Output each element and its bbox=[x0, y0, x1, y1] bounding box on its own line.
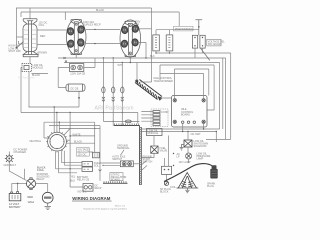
transformer end lug lower bbox=[159, 97, 162, 100]
fan line top bbox=[156, 53, 231, 139]
wire drop to oval1 top bbox=[64, 12, 66, 20]
svg-text:BLK: BLK bbox=[150, 55, 155, 58]
wire capsule top stub bbox=[29, 8, 31, 19]
wire charger down and diagonal to module bbox=[9, 162, 26, 181]
wire capsule right lead upper to oval1 bbox=[37, 29, 67, 31]
oval2 outlet BL bbox=[120, 40, 128, 48]
wire into circle top 2 bbox=[56, 113, 58, 133]
wire circle bottom stub 1 bbox=[55, 151, 57, 169]
svg-text:LP: LP bbox=[177, 156, 180, 159]
receptacle oval 1 bbox=[66, 19, 86, 55]
svg-text:PLUG: PLUG bbox=[207, 185, 214, 188]
comb horizontal row bbox=[114, 125, 140, 127]
wire board top-left up bbox=[173, 69, 175, 99]
starter solenoid module bbox=[26, 179, 35, 188]
svg-text:BROWN: BROWN bbox=[38, 51, 48, 54]
wire bottom-right run 2 bbox=[141, 131, 216, 133]
svg-text:COIL: COIL bbox=[170, 186, 176, 189]
wire nested L5 y128.5 bbox=[59, 128, 100, 130]
svg-text:YEL: YEL bbox=[71, 176, 76, 179]
bottom middle connector box 1 bbox=[82, 162, 93, 167]
idle control board bbox=[172, 96, 208, 128]
svg-text:SOLENOID: SOLENOID bbox=[194, 145, 207, 148]
wire capsule outlet with arrow bbox=[78, 91, 80, 107]
oval1 top flange bbox=[71, 20, 81, 24]
oval2 bottom flange bbox=[125, 54, 136, 56]
HT lead curve bbox=[164, 164, 213, 182]
wire relay bottom stubs bbox=[195, 48, 203, 58]
svg-text:BLOCK: BLOCK bbox=[160, 190, 169, 193]
leader to outlet box bbox=[121, 150, 125, 155]
oval2 outlet TR bbox=[131, 25, 139, 33]
twistlock outlet box bbox=[120, 161, 133, 167]
svg-text:TRANSFORMER: TRANSFORMER bbox=[154, 80, 174, 83]
boxes upper small right-mid A bbox=[147, 129, 163, 136]
oval1 outlet BR bbox=[77, 38, 85, 47]
svg-text:MODULE: MODULE bbox=[33, 67, 44, 70]
wire box A to B bbox=[153, 136, 155, 147]
svg-text:BLACK: BLACK bbox=[74, 140, 83, 143]
wire x150 drop joins transformer bbox=[140, 81, 152, 83]
svg-text:12GA: 12GA bbox=[28, 200, 35, 204]
idle control transformer diagonal bbox=[135, 80, 162, 101]
wire module left horizontal bbox=[12, 182, 27, 184]
coil ground bbox=[185, 188, 189, 193]
svg-text:DUPLEX RECP: DUPLEX RECP bbox=[83, 24, 101, 27]
svg-text:BOARD: BOARD bbox=[111, 178, 120, 181]
static regulator board box bbox=[110, 173, 123, 181]
oval2 outlet TL bbox=[121, 26, 129, 34]
svg-text:VALVE: VALVE bbox=[160, 149, 168, 152]
wire charger top stub bbox=[8, 152, 10, 156]
wires into bottom boxes bbox=[56, 169, 84, 187]
wire board top-right up bbox=[160, 74, 204, 99]
svg-text:RELAY CB: RELAY CB bbox=[77, 179, 89, 182]
wire run 1 to solenoid zone bbox=[206, 138, 231, 140]
svg-text:12V DC: 12V DC bbox=[78, 153, 87, 156]
wire top relay bus bbox=[156, 29, 199, 31]
wire left col module down bbox=[28, 72, 30, 108]
wire CB2 bottom bbox=[169, 51, 171, 53]
oval1 bottom flange bbox=[71, 52, 81, 54]
oval2 outlet BR bbox=[131, 38, 139, 46]
wire circle right lead 1 bbox=[67, 139, 70, 141]
starter ground bbox=[45, 203, 52, 209]
svg-text:CONN: CONN bbox=[161, 111, 169, 114]
key switch box bbox=[162, 166, 172, 174]
fan line five bbox=[174, 69, 208, 96]
junction x marks left bus end bbox=[64, 57, 68, 63]
alternator circle outer bbox=[48, 132, 67, 151]
oval1 outlet slots bbox=[70, 28, 82, 44]
wire oval2 bottom drop bbox=[129, 57, 131, 63]
wire into circle top 1 bbox=[53, 107, 55, 132]
svg-text:ARI PartStream: ARI PartStream bbox=[18, 77, 35, 80]
svg-text:WIRING DIAGRAM: WIRING DIAGRAM bbox=[72, 196, 111, 201]
svg-text:SWITCH: SWITCH bbox=[112, 158, 122, 161]
oval1 center strap bbox=[74, 22, 78, 54]
svg-text:SW 120/240: SW 120/240 bbox=[208, 43, 222, 46]
wire circle right lead 2 bbox=[67, 142, 95, 144]
fuel shutoff solenoid bbox=[184, 140, 192, 147]
wire board bottom stems bbox=[183, 123, 204, 131]
alternator circle inner bbox=[50, 135, 64, 149]
relay twin boxes top right bbox=[192, 35, 197, 48]
label BLACK with lead bbox=[32, 73, 49, 75]
svg-text:RED: RED bbox=[28, 195, 34, 199]
wire boot feed bbox=[215, 132, 217, 143]
oval2 top flange bbox=[125, 21, 136, 25]
wire white lead bbox=[70, 135, 95, 137]
wire left column from top bus bbox=[16, 8, 18, 48]
dc inline breaker capsule bbox=[66, 84, 85, 91]
svg-text:TERMINAL: TERMINAL bbox=[117, 147, 130, 150]
oval2 center strap bbox=[128, 23, 132, 55]
wire long mid vertical 3 bbox=[99, 126, 101, 181]
transformer leads bbox=[137, 63, 172, 99]
wire oval2 right upper bbox=[139, 28, 152, 30]
relay lever diagonal bbox=[201, 48, 210, 60]
svg-text:120V 20A CB: 120V 20A CB bbox=[70, 73, 85, 76]
svg-text:BATTERY: BATTERY bbox=[9, 205, 21, 209]
alternator terminal dots bbox=[57, 134, 58, 135]
battery bbox=[9, 194, 21, 201]
svg-text:WHITE: WHITE bbox=[73, 133, 81, 136]
chevron marks mid verticals bbox=[99, 170, 102, 172]
wire capsule left lead upper bbox=[17, 36, 24, 38]
dc breaker terminals bbox=[71, 65, 76, 70]
solenoid ground bbox=[180, 145, 185, 151]
svg-text:LAMP: LAMP bbox=[197, 158, 204, 161]
svg-text:DC CB: DC CB bbox=[71, 87, 79, 90]
svg-text:12V LAMP: 12V LAMP bbox=[179, 161, 191, 164]
capsule bottom flange bbox=[23, 52, 38, 57]
wire right extra vertical bbox=[222, 58, 224, 129]
wire CB2 top bbox=[169, 30, 171, 35]
wire top-right drop to label bbox=[178, 12, 180, 27]
svg-text:ARI PartStream: ARI PartStream bbox=[95, 106, 134, 112]
wire oval1 to oval2 upper bbox=[86, 28, 120, 30]
alternator stubs bbox=[46, 131, 68, 153]
wire battery left terminal up bbox=[11, 183, 13, 192]
voltage selector label box bbox=[207, 39, 221, 46]
wire keyswitch top bbox=[168, 136, 170, 162]
wire oval1 to oval2 lower bbox=[86, 43, 120, 45]
comb vertical strip bbox=[140, 126, 142, 186]
svg-text:SWITCH: SWITCH bbox=[143, 161, 153, 164]
low oil module inner box bbox=[24, 66, 29, 70]
main bus lower bbox=[64, 63, 220, 130]
dc charger terminal circle bbox=[5, 154, 14, 163]
main bus upper bbox=[58, 58, 226, 139]
oval1 outlet TL bbox=[67, 27, 75, 36]
fan line four bbox=[160, 65, 214, 110]
low oil module dashed box bbox=[22, 64, 32, 72]
capsule top flange bbox=[23, 19, 37, 24]
receptacle oval 2 bbox=[120, 20, 141, 57]
wire outlet box to comb bbox=[133, 163, 139, 165]
oil switch lever bbox=[17, 42, 24, 48]
wire inner bus drop to capsule bbox=[20, 12, 22, 17]
spark plug boot bbox=[212, 165, 217, 169]
wire capsule right lead lower to oval1 bbox=[37, 44, 67, 46]
circuit breaker CB2 bbox=[166, 35, 173, 51]
wire bottom-right run 1 bbox=[141, 128, 219, 130]
wire CB1 bottom bbox=[155, 51, 157, 53]
wire circle bottom stub 3 bbox=[62, 151, 82, 163]
svg-text:20A: 20A bbox=[135, 23, 140, 26]
mid text box bbox=[77, 148, 90, 157]
nested L wire 4 bbox=[49, 125, 100, 127]
svg-text:BLK: BLK bbox=[71, 180, 76, 183]
wire top outer bus bbox=[16, 7, 152, 9]
wire circle bottom stub 4 bbox=[64, 151, 82, 165]
box B with X bbox=[151, 146, 158, 153]
junction dots buses bbox=[155, 52, 156, 53]
wire right vertical from top bus to CB1 bbox=[151, 8, 153, 82]
svg-text:NEUTRAL: NEUTRAL bbox=[30, 140, 42, 143]
svg-text:Sheet 1 of 1: Sheet 1 of 1 bbox=[115, 205, 125, 208]
wire long mid vertical 1 bbox=[69, 113, 71, 188]
capsule winding hatch bbox=[24, 30, 36, 48]
wire module top left corner bbox=[24, 169, 26, 179]
wire long mid vertical 2 bbox=[94, 122, 96, 152]
nested L wire 2 bbox=[21, 113, 138, 124]
label small top-right bbox=[174, 26, 194, 31]
svg-text:MODULE: MODULE bbox=[148, 132, 159, 135]
wire module to starter bbox=[36, 184, 48, 193]
wire auto idle leads bbox=[100, 163, 120, 165]
circuit breaker CB1 bbox=[153, 35, 160, 51]
wire relay top stub with cap bbox=[195, 20, 202, 36]
svg-text:Reproduction of this diagram i: Reproduction of this diagram in any form… bbox=[84, 208, 127, 211]
nested L wire 1 bbox=[28, 106, 79, 108]
capsule center strap bbox=[29, 21, 32, 55]
svg-text:PWR WINDING: PWR WINDING bbox=[175, 28, 193, 31]
fuse drop 3 bbox=[121, 63, 123, 126]
wire circle diagonal lead bbox=[64, 129, 70, 136]
bottom middle connector box 3 bbox=[83, 184, 93, 192]
wire CB1 top bbox=[155, 30, 157, 35]
svg-text:WHT: WHT bbox=[118, 64, 124, 67]
oval2 outlet slots bbox=[124, 28, 137, 45]
fuse drop 1 bbox=[102, 58, 104, 121]
wire capsule left lead lower bbox=[19, 41, 23, 44]
spark plug symbol small bbox=[166, 174, 168, 181]
junction dots top of circle bbox=[54, 106, 55, 107]
indicator lamp bbox=[186, 153, 192, 159]
inline fuse on y121 bbox=[125, 120, 131, 123]
svg-text:OIL SWT: OIL SWT bbox=[191, 133, 202, 136]
transformer end lug upper bbox=[135, 80, 138, 83]
bottom middle connector box 2 bbox=[82, 167, 93, 171]
wire circle bottom stub 2 bbox=[58, 151, 60, 173]
svg-text:CHARGER: CHARGER bbox=[14, 151, 27, 154]
wire battery right terminal up bbox=[17, 183, 19, 191]
svg-text:RED: RED bbox=[40, 35, 45, 38]
fuse drop 2 bbox=[112, 58, 114, 126]
wire top inner bus bbox=[21, 11, 179, 13]
wire oval1 bottom drop bbox=[75, 55, 77, 58]
oil switch pivot bbox=[16, 47, 18, 49]
wire capsule bottom drop bbox=[29, 57, 31, 64]
svg-text:SOL: SOL bbox=[94, 165, 100, 168]
svg-text:SHUT OFF: SHUT OFF bbox=[8, 50, 21, 53]
bottom terminal comb row bbox=[103, 182, 128, 184]
svg-text:12GA: 12GA bbox=[37, 168, 44, 172]
wire oval2 right lower bbox=[139, 42, 146, 58]
wire left col 2 down bbox=[21, 68, 22, 113]
wire circle left lead bbox=[44, 122, 50, 138]
junction dots bottom-right runs bbox=[182, 131, 183, 132]
nested L wire 3 bbox=[44, 121, 95, 123]
svg-text:BLACK: BLACK bbox=[96, 9, 105, 12]
svg-text:NOTE 1: NOTE 1 bbox=[78, 190, 88, 193]
oval1 screws bbox=[75, 23, 77, 25]
oil sensor capsule body bbox=[23, 24, 37, 52]
oval2 screws bbox=[129, 25, 131, 27]
connector bank left of board bbox=[151, 109, 168, 127]
wire dc breaker left bbox=[58, 68, 69, 88]
ignition coil tent bbox=[177, 173, 199, 189]
wire transformer top feed bbox=[159, 65, 161, 80]
svg-text:RECP: RECP bbox=[95, 187, 102, 190]
svg-text:BOARD: BOARD bbox=[181, 114, 190, 117]
svg-text:RELAY: RELAY bbox=[37, 178, 45, 181]
wire into circle top 3 bbox=[58, 122, 60, 132]
oval1 outlet BL bbox=[67, 39, 75, 48]
leader diagonals from comb bbox=[141, 161, 147, 171]
wire comb feed y121 bbox=[103, 120, 139, 122]
wire dc breaker right bbox=[84, 58, 95, 68]
dc breaker component bbox=[69, 64, 83, 72]
oval1 outlet TR bbox=[77, 25, 85, 34]
svg-text:COIL: COIL bbox=[39, 24, 45, 27]
starter motor bbox=[42, 192, 53, 203]
svg-text:GND BOLT: GND BOLT bbox=[4, 164, 17, 167]
